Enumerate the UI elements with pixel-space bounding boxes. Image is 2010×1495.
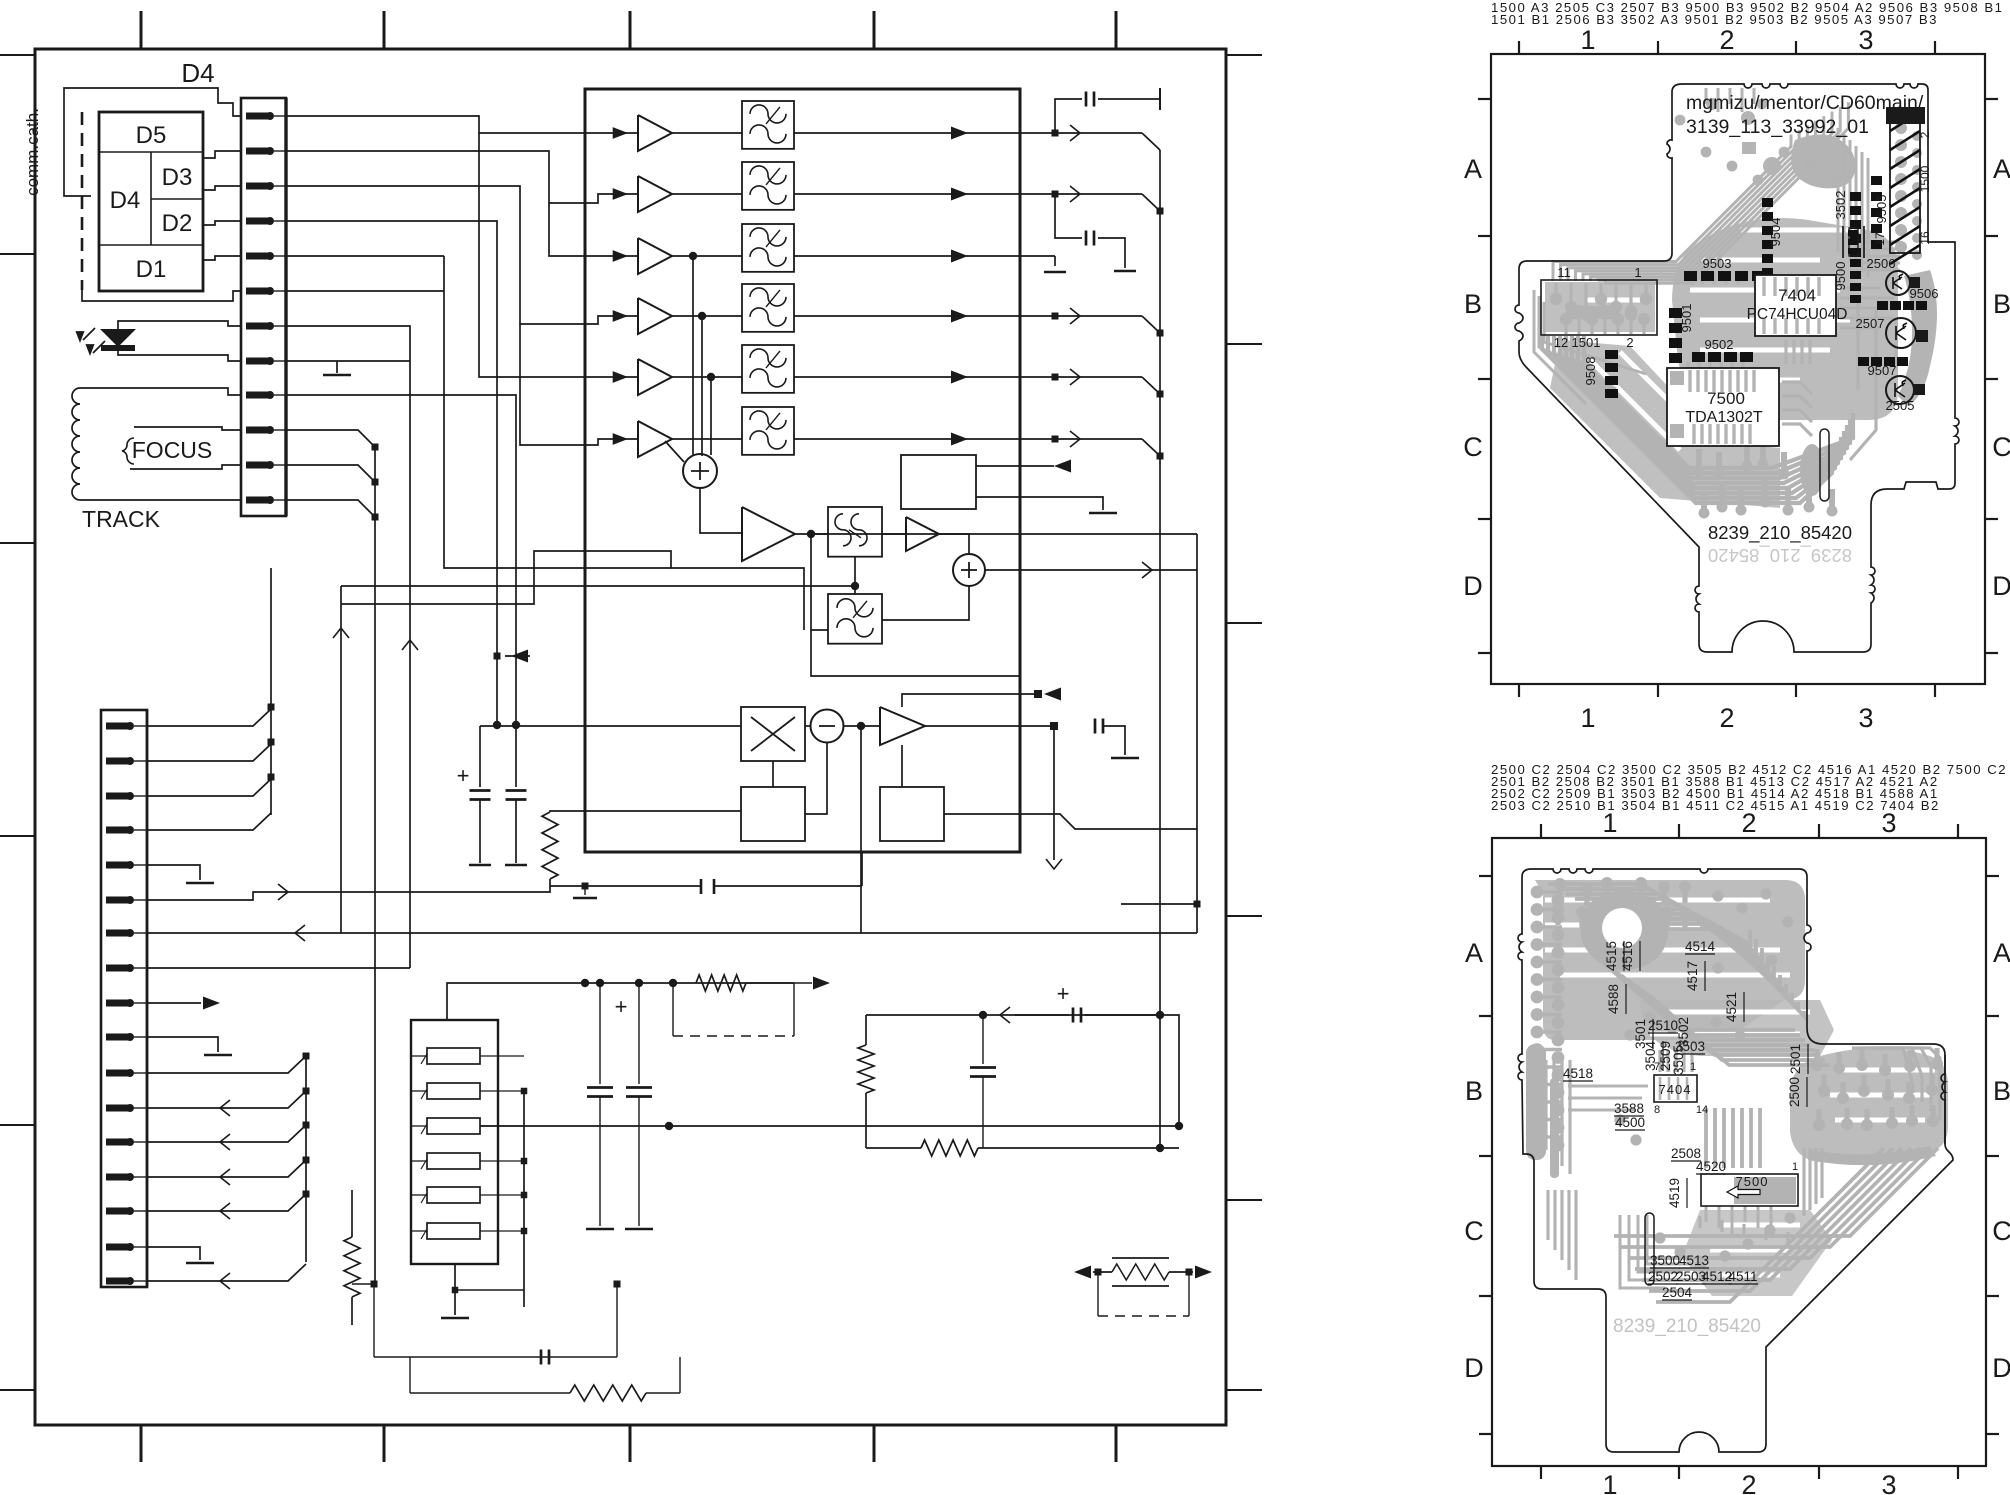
svg-text:16: 16 [1918, 231, 1932, 245]
svg-text:2506: 2506 [1867, 256, 1896, 271]
connector J2 pin 15 [106, 1207, 147, 1215]
filter F4 [742, 284, 794, 332]
wire net to F8 junction [341, 585, 855, 587]
schematic sheet frame [0, 11, 1262, 1462]
svg-text:8239_210_85420: 8239_210_85420 [1613, 1316, 1761, 1337]
wire amp6 tap to summer [665, 441, 684, 462]
filter F2 [742, 162, 794, 210]
wire J2 pin2 to ladder [147, 744, 271, 761]
network resistor RN1-1 [411, 1048, 524, 1064]
wire J1 pin6 to riser [286, 290, 444, 292]
svg-text:4515: 4515 [1604, 941, 1619, 971]
wire row3 to ground [1020, 255, 1055, 257]
wire pot feed [866, 1015, 1179, 1126]
connector J2 pin 2 [106, 757, 147, 765]
svg-text:3139_113_33992_01: 3139_113_33992_01 [1686, 116, 1869, 138]
svg-text:3502: 3502 [1833, 191, 1848, 220]
top PCB board outline [1515, 84, 1959, 652]
wire D2 to pin4 [203, 221, 241, 225]
minus junction S3 [811, 710, 844, 743]
wire coil bottom to pin12 [80, 499, 241, 501]
resistor pack 9504 [1762, 198, 1773, 277]
connector 1500 hatched [1886, 107, 1925, 264]
function box B1 [901, 455, 976, 509]
svg-text:B: B [1465, 1076, 1483, 1106]
svg-text:4588: 4588 [1606, 984, 1621, 1014]
connector J2 pin 8 [106, 964, 147, 972]
transistor 2507 [1886, 318, 1916, 348]
svg-text:14: 14 [1696, 1104, 1708, 1116]
svg-text:4518: 4518 [1563, 1066, 1593, 1081]
op-amp A4 [638, 298, 672, 334]
bottom PCB hole [1602, 908, 1642, 948]
svg-text:2: 2 [1719, 703, 1734, 733]
connector J1 pin 3 [246, 182, 286, 190]
resistor pack 9505 [1871, 176, 1882, 249]
svg-text:9503: 9503 [1703, 256, 1732, 271]
svg-text:3503: 3503 [1675, 1039, 1705, 1054]
wire RN1 top feed [447, 983, 589, 1020]
svg-text:D: D [1464, 1353, 1484, 1383]
wire J1 pin1 to amp1 [286, 116, 638, 133]
bottom PCB copper fields [1535, 880, 1948, 1296]
top PCB trace bundle right [1838, 128, 1900, 277]
svg-text:1501: 1501 [1572, 335, 1601, 350]
connector J2 pin 4 [106, 826, 147, 834]
network resistor RN1-2 [411, 1083, 524, 1099]
top PCB extra traces [1700, 254, 1894, 364]
op-amp A1 [638, 115, 672, 151]
connector J1 pin 12 [246, 496, 286, 504]
wire J2 pin9 arrow [147, 1002, 201, 1004]
wire filter6 out [794, 438, 1020, 440]
wire J2 pin4 to ladder [147, 813, 271, 830]
connector J2 pin 1 [106, 722, 147, 730]
wire J1 pin8 stub [286, 360, 410, 362]
svg-text:4511: 4511 [1728, 1269, 1757, 1284]
wire filter1 out [794, 132, 1020, 134]
wire summer to main amp [700, 488, 742, 533]
svg-text:4521: 4521 [1724, 992, 1739, 1022]
resistor R2 [696, 975, 746, 991]
svg-text:C: C [1992, 432, 2010, 462]
top PCB pad field below TDA [1694, 412, 1838, 519]
op-amp A9 [880, 707, 925, 745]
bottom PCB trace layer [1533, 884, 1938, 1302]
wire J1 pin5 to riser [286, 255, 444, 257]
wire amp5 tap to summer [707, 373, 715, 381]
board id mirrored [1708, 544, 1852, 566]
svg-text:4514: 4514 [1685, 939, 1716, 954]
multiplier M1 [741, 707, 805, 761]
resistor network RN1 box [411, 1020, 498, 1264]
wire row4 to rail [1020, 315, 1142, 317]
IC 7404 box [1755, 275, 1836, 336]
svg-text:2510: 2510 [1648, 1018, 1678, 1033]
connector J2 pin 16 [106, 1243, 147, 1251]
ground G4 [1114, 270, 1136, 273]
svg-text:3504: 3504 [1643, 1040, 1658, 1071]
svg-text:A: A [1465, 938, 1483, 968]
IC 7500 TDA1302T box [1667, 368, 1779, 446]
svg-text:7404: 7404 [1778, 286, 1816, 305]
wire cap branch [979, 1011, 987, 1019]
wire S2 out to right [985, 569, 1197, 571]
connector J2 pin 9 [106, 999, 147, 1007]
wire D1 to pin5 [203, 256, 241, 260]
wire D3 to pin3 [203, 186, 241, 190]
svg-text:3500: 3500 [1650, 1253, 1680, 1268]
wire filter3 out [794, 255, 1020, 257]
svg-text:1500: 1500 [1918, 165, 1932, 192]
resistor pack 9503 [1684, 271, 1765, 281]
connector J1 pin 4 [246, 217, 286, 225]
svg-text:D: D [1992, 1353, 2010, 1383]
wire amp7 out [795, 533, 828, 535]
common cathode dashed line [81, 112, 84, 290]
svg-text:2: 2 [1741, 1470, 1756, 1495]
wire J1 pin4 riser x497 rail [286, 221, 497, 725]
connector J1 pin 1 [246, 112, 286, 120]
connector J2 pin 17 [106, 1277, 147, 1285]
wire pin7 long rail [147, 932, 1197, 934]
top PCB lower diagonal bundle [1542, 336, 1853, 503]
svg-text:A: A [1993, 154, 2010, 184]
wire J1 pin11 drop [286, 465, 375, 482]
svg-text:8: 8 [1654, 1104, 1660, 1116]
wire filter2 out [794, 193, 1020, 195]
connector J1 pin 9 [246, 391, 286, 399]
wire J2 lower ladder rail [305, 1056, 307, 1262]
wire amp2 to filter [672, 193, 742, 195]
filter F5 [742, 345, 794, 393]
op-amp A3 [638, 238, 672, 274]
op-amp A6 [638, 421, 672, 457]
connector J2 pin 3 [106, 792, 147, 800]
wire F7 to A8 [882, 533, 906, 535]
svg-text:B: B [1464, 289, 1482, 319]
wire ladder drop rail [374, 447, 376, 1284]
wire J2 pin5 ground [147, 865, 200, 880]
box B3 below A9 [880, 787, 944, 841]
bottom PCB slot hole [1645, 1213, 1654, 1285]
wire J2 pin12 ladder [147, 1091, 306, 1108]
photodiode array D1-D5 box [99, 112, 203, 291]
svg-text:7500: 7500 [1707, 389, 1745, 408]
wire coil top to pin8 [80, 388, 241, 395]
svg-text:A: A [1464, 154, 1482, 184]
wire A9 to B3 [901, 745, 903, 787]
cap C-right2 wire [1055, 194, 1082, 238]
ground B1 [1089, 512, 1117, 515]
svg-text:1: 1 [1690, 1061, 1696, 1073]
svg-text:9504: 9504 [1768, 218, 1783, 247]
ground G3 [1044, 271, 1066, 274]
wire net from junction to pin7 rail [860, 726, 862, 933]
bottom PCB right of 7500 traces [1700, 1148, 1822, 1244]
main amp A7 [742, 507, 795, 561]
bottom PCB right edge detail [1941, 1055, 1945, 1144]
wire J1 pin10 drop [286, 430, 375, 447]
top PCB slot hole [1820, 429, 1829, 501]
svg-text:1501 B1 2506 B3 3502 A3 9501 B: 1501 B1 2506 B3 3502 A3 9501 B2 9503 B2 … [1491, 12, 1938, 27]
svg-text:A: A [1993, 938, 2010, 968]
svg-text:2505: 2505 [1886, 398, 1915, 413]
junction and cap C-pll [1050, 722, 1058, 730]
trimmer pot VR1 [1074, 1258, 1212, 1316]
wire B1 out upper [976, 465, 1054, 467]
wire rail crossing bottom [1121, 903, 1197, 905]
resistor R1 [550, 811, 741, 812]
wire J1 pin3 to amp4 [286, 186, 638, 324]
top PCB 1501 block pads [1556, 283, 1646, 334]
summing junction S2 [953, 554, 985, 586]
resistor R5 vertical [351, 1190, 353, 1237]
wire amp6 to filter [672, 438, 742, 440]
op-amp A5 [638, 359, 672, 395]
connector J1 pin 8 [246, 357, 286, 365]
connector J2 pin 13 [106, 1138, 147, 1146]
laser diode D6 [75, 321, 241, 361]
svg-text:2501: 2501 [1788, 1044, 1803, 1074]
connector J1 pin 2 [246, 147, 286, 155]
svg-text:C: C [1992, 1216, 2010, 1246]
wire J2 pin8 riser [147, 967, 410, 969]
wire row6 to rail [1020, 438, 1142, 440]
svg-text:4519: 4519 [1667, 1178, 1682, 1208]
wire A9 out right [925, 725, 1054, 727]
connector J1 pin 7 [246, 322, 286, 330]
wire D5 to pin2 [203, 151, 241, 158]
svg-text:11: 11 [1557, 265, 1571, 280]
svg-text:D: D [1992, 571, 2010, 601]
top PCB top edge stubs [1706, 88, 1754, 112]
coil TRACK L1 [72, 388, 80, 500]
wire F7 junction down to F8 [811, 534, 828, 630]
svg-text:4513: 4513 [1679, 1253, 1709, 1268]
wire amp3 tap to summer [689, 252, 697, 260]
filter F6 [742, 407, 794, 455]
wire filter4 out [794, 315, 1020, 317]
svg-text:PC74HCU04D: PC74HCU04D [1747, 306, 1848, 323]
resistor pack 9500 [1850, 259, 1861, 303]
svg-text:+: + [1057, 981, 1070, 1006]
bottom PCB coordinate frame [1464, 808, 2010, 1495]
connector J1 pin 6 [246, 287, 286, 295]
top PCB wing traces [1534, 290, 1646, 404]
svg-text:1: 1 [1634, 265, 1641, 280]
connector J1 pin 5 [246, 252, 286, 260]
connector J2 [101, 710, 147, 1287]
wire amp1 to filter [672, 132, 742, 134]
RN1 right bus [523, 1091, 525, 1307]
wire filter5 out [794, 376, 1020, 378]
wire bottom loop [371, 1281, 378, 1288]
wire amp4 to filter [672, 315, 742, 317]
top PCB copper fields [1545, 218, 1898, 508]
connector J2 pin 5 [106, 861, 147, 869]
svg-text:4517: 4517 [1685, 961, 1700, 991]
svg-text:D4: D4 [110, 187, 141, 214]
wire cathode to pin6 [82, 290, 241, 301]
svg-text:9506: 9506 [1910, 286, 1939, 301]
svg-text:9502: 9502 [1705, 337, 1734, 352]
connector J2 pin 11 [106, 1069, 147, 1077]
network resistor RN1-6 [411, 1223, 524, 1239]
wire J2 ladder upper rail [270, 568, 272, 815]
resistor R3 vertical [865, 1015, 867, 1045]
wire B1 out lower [976, 497, 1103, 510]
wire F8 bypass bottom [811, 630, 1020, 676]
top PCB trace layer [1553, 102, 1848, 283]
svg-text:D: D [1463, 571, 1483, 601]
svg-text:+: + [457, 763, 470, 788]
op-amp A2 [638, 176, 672, 212]
bottom PCB infill traces [1548, 1048, 1940, 1288]
connector J1 pin 10 [246, 426, 286, 434]
svg-text:9505: 9505 [1874, 195, 1889, 224]
svg-text:FOCUS: FOCUS [132, 437, 213, 463]
svg-text:TDA1302T: TDA1302T [1685, 409, 1763, 426]
wire cap to ground [1103, 726, 1125, 755]
svg-text:8239_210_85420: 8239_210_85420 [1708, 544, 1852, 566]
bottom PCB pad fields [1526, 877, 1943, 1272]
svg-text:1: 1 [1580, 703, 1595, 733]
wire amp5 to filter [672, 376, 742, 378]
svg-text:1: 1 [1602, 1470, 1617, 1495]
wire riser x444 [444, 256, 671, 568]
network resistor RN1-3 [411, 1118, 524, 1134]
wire F7 bottom to F8 top [854, 557, 856, 594]
svg-text:1: 1 [1580, 25, 1595, 55]
wire F8 out to S2 [882, 586, 969, 620]
wire J2 pin16 ground [147, 1247, 200, 1260]
wire J2 pin6 out [147, 886, 550, 900]
wire A8 to summer S2 [939, 534, 969, 553]
resistor R4 [866, 1147, 921, 1149]
svg-text:3: 3 [1881, 1470, 1896, 1495]
svg-text:3: 3 [1858, 25, 1873, 55]
top PCB TDA trace surround [1690, 280, 1814, 445]
svg-text:3: 3 [1858, 703, 1873, 733]
svg-text:D4: D4 [181, 58, 214, 88]
svg-text:9501: 9501 [1679, 304, 1694, 333]
svg-text:2: 2 [1719, 25, 1734, 55]
wire y604 link [341, 551, 804, 630]
wire D4 loop [64, 88, 241, 196]
filter F1 [742, 101, 794, 149]
wire B3 out right [944, 814, 1197, 829]
bottom PCB board outline [1518, 869, 1953, 1452]
wire B2 to S3 [805, 742, 827, 814]
IC U-main block TDA1302 [585, 89, 1020, 852]
focus brace [122, 438, 134, 464]
wire riser x341 [340, 586, 342, 933]
svg-text:9507: 9507 [1868, 363, 1897, 378]
svg-text:3588: 3588 [1614, 1101, 1644, 1116]
svg-text:7404: 7404 [1659, 1082, 1692, 1097]
transistor 2506 [1886, 271, 1910, 295]
wire row1 to rail [1020, 132, 1142, 134]
resistor R6 [410, 1392, 570, 1394]
svg-text:2502: 2502 [1648, 1269, 1678, 1284]
summing junction S1 [683, 454, 717, 488]
wire M1 to B2 [772, 761, 774, 787]
wire bottom loop2 [352, 1283, 374, 1285]
connector J1 [241, 98, 286, 516]
svg-text:comm.cath.: comm.cath. [23, 108, 42, 196]
wire J2 pin13 ladder [147, 1125, 306, 1142]
svg-text:4500: 4500 [1615, 1115, 1645, 1130]
svg-text:D2: D2 [162, 210, 193, 237]
box B2 below M1 [741, 787, 805, 841]
crystal 1502 [1843, 226, 1864, 258]
svg-text:4520: 4520 [1696, 1159, 1726, 1174]
wire amp3 to filter [672, 255, 742, 257]
svg-text:8239_210_85420: 8239_210_85420 [1708, 522, 1852, 544]
svg-text:B: B [1993, 1076, 2010, 1106]
wire J1 net to amp3 [549, 203, 638, 256]
wire junction down arrow [1053, 730, 1055, 860]
wire row5 to rail [1020, 376, 1142, 378]
junction arrow mid [494, 653, 501, 660]
RN1 bottom to ground [454, 1264, 456, 1290]
connector J2 pin 14 [106, 1173, 147, 1181]
cap C4 [599, 983, 601, 1084]
svg-text:D1: D1 [136, 256, 167, 283]
wire row2 to rail [1020, 193, 1142, 195]
resistor pack 9508 [1605, 350, 1618, 398]
filter F7 bandpass [828, 507, 882, 557]
wire rail x1197 [1196, 534, 1198, 933]
wire J1 net to amp5 [479, 133, 638, 377]
electrolytic cap C1 [457, 721, 502, 865]
wire rail x1160 [1159, 150, 1161, 1148]
wire A9 top to flag [902, 694, 1040, 707]
wire J2 pin17 [147, 1264, 306, 1281]
svg-text:+: + [615, 994, 628, 1019]
ground G2 [1111, 757, 1139, 760]
connector J1 pin 11 [246, 461, 286, 469]
svg-text:4516: 4516 [1620, 941, 1635, 971]
filter F3 [742, 224, 794, 272]
wire J1 pin12 drop [286, 500, 375, 517]
wire J2 pin11 ladder [147, 1056, 306, 1073]
wire RN1 row3 long out [480, 1125, 1179, 1127]
svg-text:2500: 2500 [1787, 1077, 1802, 1107]
wire J2 pin1 to ladder [147, 709, 271, 726]
wire focus bottom to pin11 [130, 465, 241, 469]
svg-text:1: 1 [1792, 1161, 1798, 1173]
network resistor RN1-4 [411, 1153, 524, 1169]
svg-text:2: 2 [1918, 131, 1932, 138]
IC 7500 bottom box [1701, 1174, 1798, 1206]
wire J2 pin15 ladder [147, 1194, 306, 1211]
wire J2 pin14 ladder [147, 1160, 306, 1177]
svg-text:17: 17 [1873, 232, 1887, 246]
wire J2 pin10 ground [147, 1037, 218, 1052]
svg-text:2503 C2 2510 B1 3504 B1 4511 C: 2503 C2 2510 B1 3504 B1 4511 C2 4515 A1 … [1491, 798, 1940, 813]
resistor pack 3502 [1850, 192, 1861, 257]
wire J2 pin3 to ladder [147, 779, 271, 796]
svg-text:2507: 2507 [1856, 316, 1885, 331]
network resistor RN1-5 [411, 1187, 524, 1203]
electrolytic cap C2 [505, 721, 527, 865]
wire y886 into box [550, 885, 862, 887]
resistor pack 9506 [1877, 301, 1927, 310]
svg-text:B: B [1993, 289, 2010, 319]
wire y983 rail [585, 982, 794, 984]
